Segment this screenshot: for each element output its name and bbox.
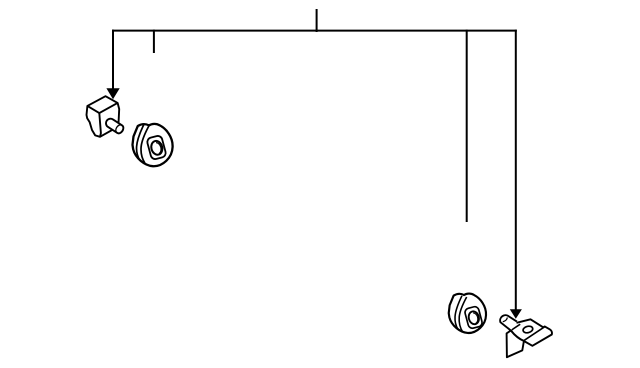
wire right leader	[515, 31, 517, 310]
bracket fold line	[524, 327, 545, 341]
part grommet 1 shell	[133, 124, 173, 166]
part sensor stub	[104, 117, 125, 135]
wire top center tick	[316, 10, 318, 31]
arrowhead right	[510, 309, 522, 319]
part bracket stub	[500, 315, 517, 330]
bracket hole	[522, 325, 533, 334]
part grommet 2 shell	[449, 294, 486, 333]
part bracket plate	[507, 319, 552, 357]
wire mid-right leader	[466, 31, 468, 221]
wire left leader	[112, 31, 114, 89]
part grommet 1 inner detail	[137, 124, 167, 163]
bracket flange	[507, 331, 524, 358]
wire horizontal header	[113, 30, 516, 32]
wire short tick	[153, 31, 155, 52]
part grommet 2 inner detail	[455, 296, 483, 332]
bracket left edge line	[511, 324, 520, 330]
part sensor box	[87, 96, 120, 137]
arrowhead left	[106, 88, 119, 99]
